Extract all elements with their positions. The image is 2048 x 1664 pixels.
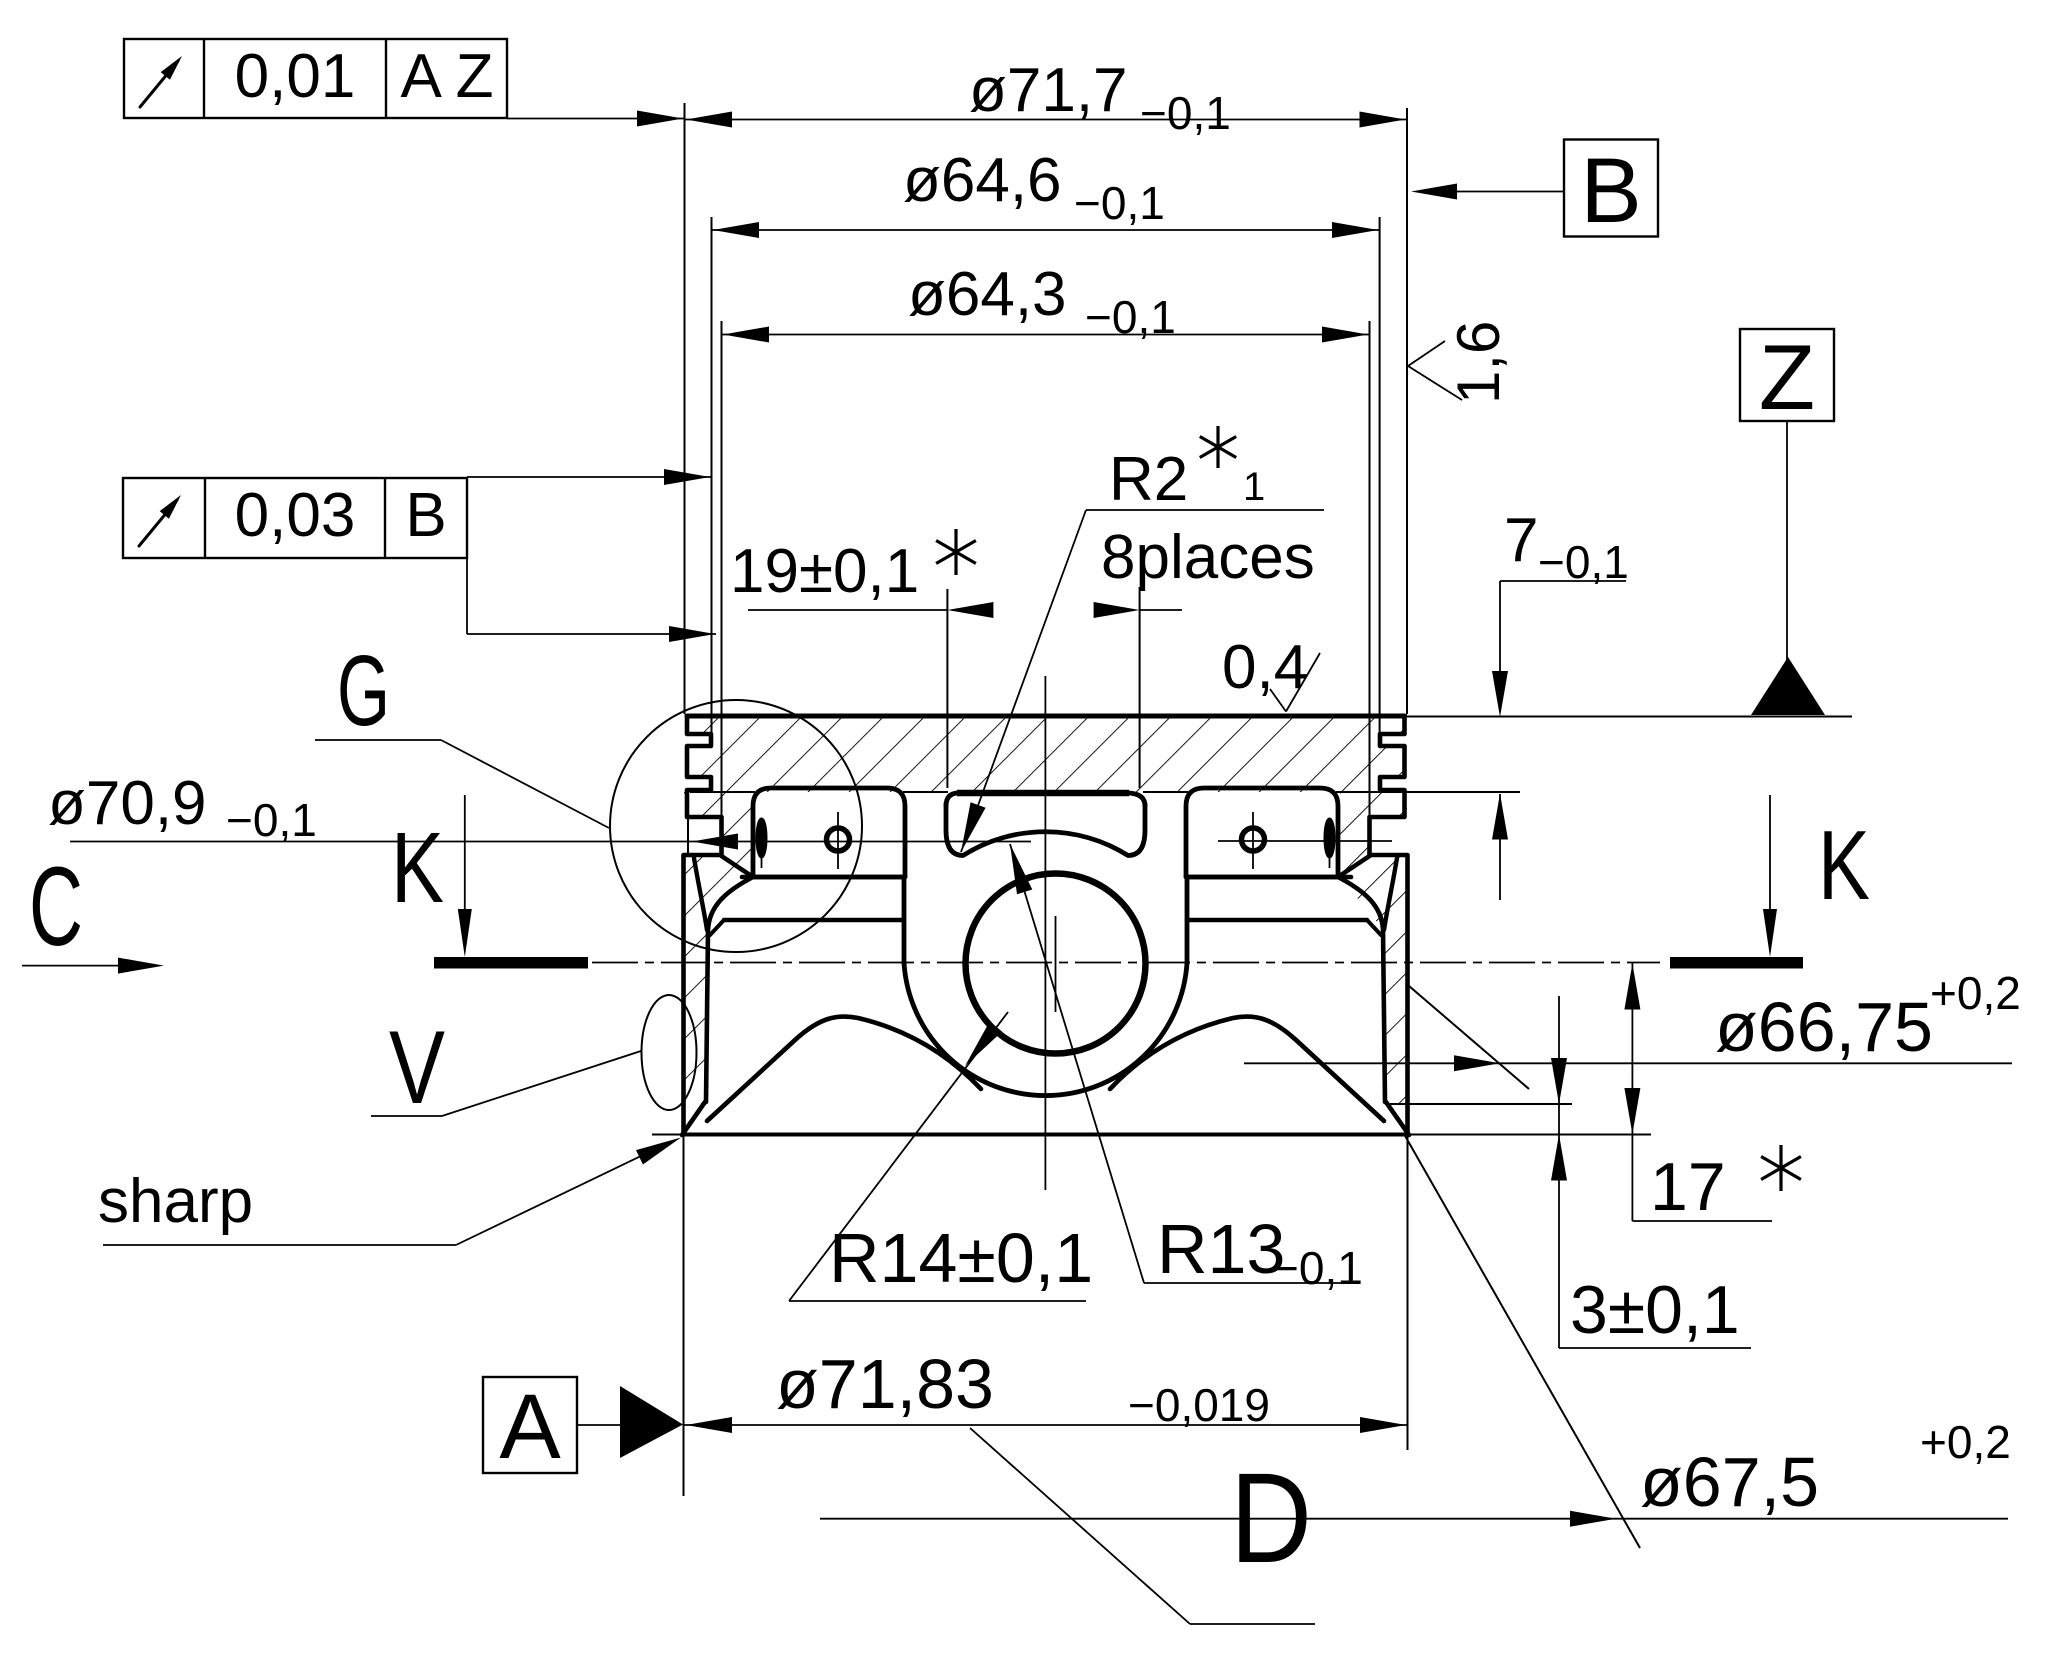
center slot top edge bbox=[957, 790, 1129, 797]
sharp arrow bbox=[636, 1138, 681, 1165]
dim O71.83 line bbox=[685, 1424, 1408, 1426]
piston right profile with ring grooves bbox=[1370, 714, 1408, 1135]
datum Z box bbox=[1740, 329, 1834, 421]
left window slit ellipse bbox=[757, 819, 766, 857]
FCF2 leader 2 bbox=[466, 557, 468, 634]
dim 17 down arrow bbox=[1624, 1088, 1640, 1134]
pin bore bbox=[966, 874, 1146, 1054]
svg-text:+0,2: +0,2 bbox=[1930, 967, 2021, 1019]
right skirt wall hatch bbox=[1340, 792, 1407, 1104]
svg-text:K: K bbox=[391, 812, 444, 924]
svg-text:0,4: 0,4 bbox=[1222, 633, 1308, 702]
dim O64.3 right arrow bbox=[1322, 327, 1368, 343]
slot top left corner bbox=[946, 793, 957, 806]
dim 3 down arrow bbox=[1551, 1058, 1567, 1104]
datum B box bbox=[1564, 140, 1658, 237]
svg-text:−0,1: −0,1 bbox=[1538, 536, 1629, 588]
svg-text:Z: Z bbox=[1759, 327, 1815, 429]
dim O64.6 left arrow bbox=[713, 222, 759, 238]
right boss face line bbox=[1188, 918, 1367, 923]
ext line left O64.6 bbox=[711, 217, 713, 734]
R14 leader bbox=[789, 1012, 1008, 1301]
dim 7 lower line bbox=[1499, 794, 1501, 900]
crown section hatch bbox=[687, 718, 1404, 792]
FCF1 leader bbox=[507, 118, 685, 120]
oblique extension for O66.75 bbox=[1409, 986, 1529, 1089]
dim 7 down arrow bbox=[1492, 671, 1508, 717]
center slot with R2 fillets and R13 saddle bbox=[946, 804, 1145, 856]
dim 17 line bbox=[1631, 963, 1633, 1221]
right boss face corner tick bbox=[1367, 920, 1381, 935]
svg-text:19±0,1: 19±0,1 bbox=[730, 537, 919, 606]
main horizontal centerline bbox=[592, 962, 1660, 964]
svg-text:sharp: sharp bbox=[98, 1167, 253, 1236]
D underline bbox=[1190, 1623, 1315, 1625]
R13 underline bbox=[1144, 1282, 1349, 1284]
svg-text:ø71,7: ø71,7 bbox=[969, 56, 1128, 125]
left oil-groove to window diagonal bbox=[722, 856, 754, 877]
left bottom inner chamfer bbox=[682, 1102, 705, 1135]
svg-text:R14±0,1: R14±0,1 bbox=[829, 1219, 1093, 1297]
dim 3 line bbox=[1558, 996, 1560, 1348]
left skirt inner wall bbox=[706, 877, 753, 1102]
svg-text:1,6: 1,6 bbox=[1445, 321, 1512, 404]
V detail ellipse bbox=[642, 995, 697, 1110]
dim 19 right arrow bbox=[1094, 602, 1140, 618]
ext line left O64.3 bbox=[721, 321, 723, 816]
R2 leader bbox=[961, 510, 1086, 852]
dim O64.3 left arrow bbox=[723, 327, 769, 343]
svg-text:ø71,83: ø71,83 bbox=[776, 1345, 994, 1423]
ext line right O64.6 bbox=[1379, 217, 1381, 734]
O70.9 extension tick bbox=[687, 819, 689, 855]
crown underside line segments bbox=[690, 791, 755, 793]
svg-text:C: C bbox=[29, 844, 83, 969]
svg-text:R2: R2 bbox=[1109, 445, 1188, 514]
svg-text:17: 17 bbox=[1650, 1149, 1726, 1225]
left window bottom edge extension bbox=[742, 875, 905, 880]
svg-text:−0,1: −0,1 bbox=[1140, 87, 1231, 139]
svg-text:A Z: A Z bbox=[400, 42, 493, 111]
left boss face corner tick bbox=[710, 920, 724, 935]
FCF runout 0,03 B box bbox=[123, 478, 467, 558]
dim O71.7 line bbox=[685, 119, 1408, 121]
svg-text:ø64,6: ø64,6 bbox=[903, 146, 1062, 215]
svg-text:−0,1: −0,1 bbox=[1272, 1242, 1363, 1294]
ext line left bottom bbox=[683, 1136, 685, 1496]
right window oil hole circle bbox=[1242, 828, 1265, 851]
0,4 leader bbox=[1270, 689, 1286, 712]
dim O71.7 right arrow bbox=[1360, 112, 1406, 128]
vertical centerline bbox=[1044, 676, 1046, 1190]
pin boss U wall left bbox=[902, 877, 907, 963]
crown top extension to Z datum bbox=[1407, 716, 1852, 718]
svg-text:R13: R13 bbox=[1157, 1210, 1285, 1288]
dim 19 left arrow bbox=[947, 602, 993, 618]
V leader bbox=[371, 1115, 442, 1117]
datum A box bbox=[483, 1377, 577, 1473]
piston left profile with ring grooves bbox=[684, 714, 722, 1135]
slot top right corner bbox=[1129, 793, 1145, 806]
svg-text:ø64,3: ø64,3 bbox=[908, 260, 1067, 329]
right boss window bbox=[1186, 788, 1338, 877]
svg-text:B: B bbox=[1580, 140, 1641, 242]
left boss face line bbox=[724, 918, 903, 923]
dim O71.7 left arrow bbox=[686, 112, 732, 128]
FCF2 leader 1 bbox=[467, 476, 712, 478]
left skirt inner wall top segment bbox=[694, 858, 707, 930]
right window bottom edge extension bbox=[1186, 875, 1351, 880]
dim O67.5 line bbox=[820, 1518, 2008, 1520]
svg-text:+0,2: +0,2 bbox=[1920, 1416, 2011, 1468]
groove notches (white) bbox=[684, 734, 712, 746]
R14 arrow bbox=[965, 1022, 1002, 1066]
right oil-groove to window diagonal bbox=[1338, 856, 1370, 877]
left skirt wall hatch bbox=[684, 792, 751, 1104]
svg-text:D: D bbox=[1230, 1447, 1312, 1590]
svg-text:−0,1: −0,1 bbox=[1085, 291, 1176, 343]
pin boss U wall right bbox=[1185, 877, 1190, 963]
dim O70.9 arrow bbox=[692, 834, 738, 850]
slot ext line right bbox=[1139, 587, 1141, 788]
R13 arrow bbox=[1010, 844, 1032, 894]
dim O66.75 arrow bbox=[1454, 1055, 1500, 1071]
K right arrow bbox=[1769, 795, 1771, 912]
G detail circle bbox=[610, 700, 862, 952]
ext line right bottom bbox=[1407, 1136, 1409, 1450]
crown underside extension right bbox=[1404, 791, 1520, 793]
right skirt inner wall top segment bbox=[1384, 858, 1397, 930]
dim 7 up arrow bbox=[1492, 794, 1508, 840]
svg-text:V: V bbox=[389, 1010, 445, 1126]
dim O67.5 arrow bbox=[1570, 1511, 1616, 1527]
datum Z leader and triangle bbox=[1786, 421, 1788, 660]
svg-text:−0,1: −0,1 bbox=[1074, 177, 1165, 229]
dim 17 up arrow bbox=[1624, 964, 1640, 1010]
dim O64.6 line bbox=[712, 229, 1380, 231]
R2 underline bbox=[1086, 509, 1324, 511]
svg-text:ø67,5: ø67,5 bbox=[1640, 1443, 1819, 1521]
svg-text:B: B bbox=[405, 481, 446, 550]
dim O64.3 line bbox=[722, 334, 1370, 336]
oblique extension for O67.5 bbox=[1404, 1134, 1640, 1548]
dim 3 up arrow bbox=[1551, 1135, 1567, 1181]
K left arrow bbox=[464, 795, 466, 912]
svg-text:8places: 8places bbox=[1101, 523, 1315, 592]
R13 leader bbox=[1010, 844, 1144, 1283]
svg-text:3±0,1: 3±0,1 bbox=[1570, 1272, 1740, 1348]
R14 underline bbox=[789, 1300, 1086, 1302]
svg-text:0,03: 0,03 bbox=[235, 481, 356, 550]
dim O66.75 line bbox=[1244, 1062, 2012, 1064]
svg-text:7: 7 bbox=[1504, 506, 1538, 575]
K right section bar bbox=[1670, 957, 1803, 969]
asterisk bbox=[1216, 426, 1219, 468]
datum B leader bbox=[1455, 191, 1564, 193]
chamfer extension line bbox=[1390, 1103, 1572, 1105]
svg-text:K: K bbox=[1818, 810, 1870, 920]
piston bottom face bbox=[684, 1133, 1408, 1137]
left window oil hole circle bbox=[827, 828, 850, 851]
piston crown top bbox=[687, 714, 1405, 719]
svg-text:−0,019: −0,019 bbox=[1128, 1379, 1270, 1431]
right skirt inner wall bbox=[1338, 877, 1385, 1102]
surface 1,6 callout bbox=[1408, 341, 1445, 366]
G leader bbox=[315, 739, 441, 741]
right window slit ellipse bbox=[1325, 819, 1334, 857]
skirt window wave right bbox=[1110, 1017, 1384, 1121]
left boss window bbox=[753, 788, 905, 877]
svg-text:0,01: 0,01 bbox=[235, 42, 356, 111]
svg-text:1: 1 bbox=[1243, 465, 1265, 509]
ext line right O64.3 bbox=[1369, 321, 1371, 816]
pin bore vertical center mark bbox=[1055, 916, 1057, 1012]
sharp leader bbox=[103, 1244, 456, 1246]
svg-text:−0,1: −0,1 bbox=[226, 794, 317, 846]
datum A leader and triangle bbox=[577, 1424, 622, 1426]
dim 19 line bbox=[748, 609, 947, 611]
asterisk bbox=[1779, 1145, 1782, 1191]
R2 arrow bbox=[961, 802, 986, 852]
bottom face extension line bbox=[652, 1134, 1651, 1136]
svg-text:ø70,9: ø70,9 bbox=[48, 769, 207, 838]
dim O70.9 line bbox=[70, 841, 1031, 843]
slot ext line left bbox=[946, 589, 948, 788]
dim O71.83 left arrow bbox=[686, 1417, 732, 1433]
FCF runout 0,01 A Z box bbox=[124, 39, 507, 118]
K left section bar bbox=[434, 957, 588, 969]
svg-text:A: A bbox=[499, 1376, 561, 1478]
svg-text:ø66,75: ø66,75 bbox=[1715, 988, 1933, 1066]
svg-text:G: G bbox=[337, 635, 390, 747]
pin boss R14 arch bbox=[904, 963, 1187, 1096]
ext line left O71.7 bbox=[684, 103, 686, 714]
dim O64.6 right arrow bbox=[1332, 222, 1378, 238]
dim O71.83 right arrow bbox=[1360, 1417, 1406, 1433]
asterisk bbox=[954, 529, 957, 575]
C view arrow bbox=[22, 965, 122, 967]
D leader bbox=[970, 1428, 1190, 1624]
skirt window wave left bbox=[707, 1017, 981, 1121]
right bottom inner chamfer bbox=[1386, 1102, 1409, 1135]
ext line right O71.7 bbox=[1406, 108, 1408, 714]
dim 7 bracket bbox=[1500, 580, 1626, 582]
right window centerline bbox=[1218, 840, 1392, 842]
